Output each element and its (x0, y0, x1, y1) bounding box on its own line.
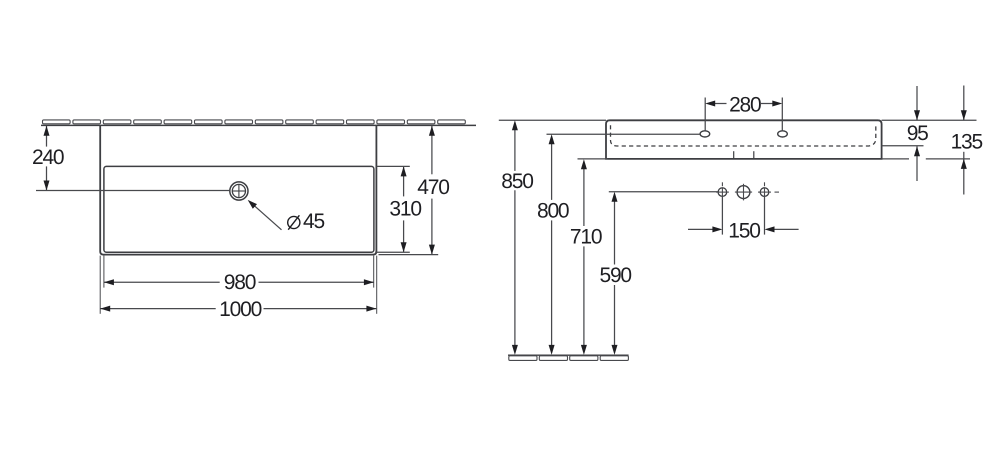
wall fixing holes (716, 182, 779, 200)
extension line 800 (deck holes) (547, 133, 700, 135)
label diameter 45 (288, 210, 325, 233)
tap hole symbol (230, 182, 248, 200)
extension line 850 (top of basin) (499, 119, 606, 121)
tap holes on deck (side view) (700, 131, 787, 137)
dimension 240 (32, 126, 230, 191)
svg-text:710: 710 (570, 226, 602, 249)
svg-text:95: 95 (907, 122, 928, 145)
dimension 150 (688, 219, 799, 242)
wall line (plan view) (41, 120, 476, 126)
dimension 850 (501, 120, 533, 355)
svg-text:280: 280 (729, 93, 761, 116)
dimension 470 (379, 126, 450, 255)
svg-text:980: 980 (224, 271, 256, 294)
dimension 135 (951, 86, 983, 195)
svg-text:850: 850 (501, 170, 533, 193)
dimension 280 (705, 93, 782, 130)
basin inner bowl 980x310 (plan) (104, 166, 374, 252)
floor line (508, 354, 629, 356)
svg-text:150: 150 (728, 219, 760, 242)
dimension 1000 (100, 256, 377, 322)
svg-text:590: 590 (599, 264, 631, 287)
drain slot ticks (side view) (734, 151, 754, 159)
basin body (side view) (606, 120, 882, 159)
fixing hole extension verticals (722, 197, 764, 235)
svg-text:45: 45 (303, 210, 324, 233)
svg-text:240: 240 (32, 146, 64, 169)
floor hatch blocks (509, 356, 629, 361)
svg-text:310: 310 (389, 197, 421, 220)
dimension 800 (537, 134, 569, 355)
dimension 980 (104, 256, 374, 294)
svg-text:135: 135 (951, 131, 983, 154)
dimension 95 (907, 86, 928, 181)
svg-text:470: 470 (417, 176, 449, 199)
basin outer rim 1000x470 (plan) (100, 125, 376, 254)
extension lines right side (882, 120, 977, 159)
extension line 590 (fixing holes) (609, 191, 718, 193)
dimension 310 (375, 166, 421, 252)
extension line 710 (bottom of basin) (578, 158, 609, 160)
svg-text:1000: 1000 (219, 298, 261, 321)
basin inner profile (dashed) (611, 124, 876, 146)
svg-text:800: 800 (537, 200, 569, 223)
dimension 710 (570, 159, 602, 355)
leader arrow to tap hole (248, 200, 282, 230)
dimension 590 (599, 192, 631, 355)
